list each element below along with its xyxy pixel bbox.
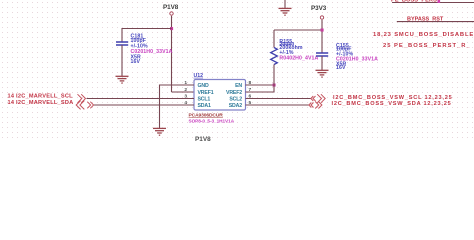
resistor R155 [271,30,278,85]
junction EN node [273,84,276,87]
svg-text:I2C_BMC_BOSS_VSW_SDA 12,23,25: I2C_BMC_BOSS_VSW_SDA 12,23,25 [332,101,452,107]
wire SCL1 [87,98,195,100]
wire P1V8 to C181 [122,29,172,43]
capacitor C181 [116,42,128,45]
wire SCL2 [246,98,312,100]
ground below U12 [153,128,166,135]
ground top middle [279,8,292,15]
R155 value labels [279,39,318,61]
off-page connector I2C_MARVELL_SCL [78,94,86,103]
off-page connector I2C_MARVELL_SDA [76,101,93,110]
svg-text:BYPASS_RST: BYPASS_RST [407,16,444,22]
svg-text:18,23 SMCU_BOSS_DISABLE_: 18,23 SMCU_BOSS_DISABLE_ [373,32,474,38]
wire R155 to P3V3 rail [274,29,322,31]
ground below C155 [316,70,329,77]
svg-text:SCL2: SCL2 [229,97,242,103]
C181 value labels [131,34,173,66]
power flag P3V3 [311,5,327,19]
svg-text:GND: GND [198,83,209,89]
junction tick top right [438,0,441,3]
off-page connector I2C_BMC_BOSS_VSW_SCL [311,94,325,103]
wire top right net [392,2,474,4]
svg-text:P1V8: P1V8 [163,4,179,11]
wire P1V8 to U12 pin 2 VREF1 [172,91,195,93]
wire to top ground [284,0,286,8]
wire EN pin 8 to R155 [246,84,275,86]
svg-text:VREF1: VREF1 [198,90,214,96]
wire SDA2 [246,104,310,106]
wire VREF2 pin 7 to EN node [246,85,275,92]
junction P1V8 node [170,27,173,30]
svg-text:14 I2C_MARVELL_SDA: 14 I2C_MARVELL_SDA [8,100,74,106]
svg-text:R0402H0_4V1A: R0402H0_4V1A [279,56,318,62]
ground below C181 [116,76,129,83]
svg-text:P3V3: P3V3 [311,5,327,12]
svg-text:PE_BOSS_PERST: PE_BOSS_PERST [391,0,441,4]
svg-text:SCL1: SCL1 [198,97,211,103]
net BYPASS_RST wire [397,21,474,23]
svg-text:EN: EN [235,83,242,89]
svg-text:VREF2: VREF2 [226,90,242,96]
wire C181 to ground [121,45,123,76]
wire SDA1 [94,104,194,106]
svg-text:16V: 16V [336,65,346,71]
capacitor C155 [316,53,328,56]
wire P3V3 down to C155 [321,20,323,53]
svg-text:14 I2C_MARVELL_SCL: 14 I2C_MARVELL_SCL [8,94,74,100]
svg-text:SDA1: SDA1 [198,103,212,109]
C155 value labels [336,43,378,71]
svg-text:SOP8-0_5-3_1H1V1A: SOP8-0_5-3_1H1V1A [189,118,235,123]
power flag P1V8 [163,4,179,15]
wire C155 to ground [321,56,323,70]
wire P1V8 vertical [171,16,173,92]
svg-text:SDA2: SDA2 [229,103,243,109]
off-page connector I2C_BMC_BOSS_VSW_SDA [309,102,322,109]
wire GND pin 1 to ground [160,85,195,128]
svg-text:16V: 16V [131,59,141,65]
svg-text:25 PE_BOSS_PERST_R_: 25 PE_BOSS_PERST_R_ [383,43,471,49]
svg-text:U12: U12 [194,73,204,79]
svg-text:P1V8: P1V8 [195,136,211,141]
junction P3V3 node [321,29,324,32]
U12 pin names [198,83,243,109]
svg-text:2: 2 [184,87,187,93]
IC U12 body [194,80,246,111]
U12 pin numbers [184,80,251,106]
